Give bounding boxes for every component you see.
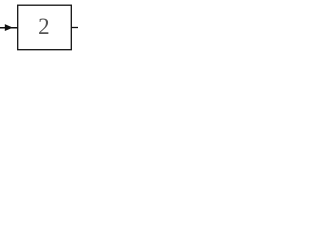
block U1 [18,5,72,50]
wire input [0,27,18,29]
arrowhead [5,24,13,31]
wire output [71,27,78,29]
svg-text:2: 2 [38,14,50,39]
